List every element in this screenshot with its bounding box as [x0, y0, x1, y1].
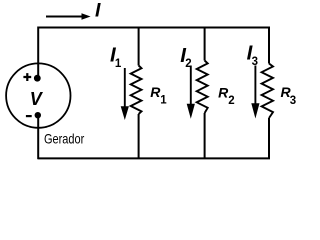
resistor R2 — [197, 61, 208, 114]
svg-text:Gerador: Gerador — [44, 132, 85, 147]
current arrow I1 — [124, 68, 126, 108]
resistor R3 — [262, 64, 273, 119]
svg-text:V: V — [30, 89, 44, 109]
current arrow I top — [46, 16, 84, 18]
minus terminal mark — [26, 115, 32, 117]
wire branch 3 top — [268, 27, 270, 64]
wire branch 1 bottom — [138, 114, 140, 159]
wire left top segment — [37, 27, 39, 79]
wire branch 2 top — [204, 27, 206, 61]
generator circle V — [6, 63, 70, 127]
wire bottom rail — [38, 157, 271, 159]
wire branch 3 bottom — [268, 118, 270, 159]
svg-text:3: 3 — [252, 56, 258, 68]
svg-text:2: 2 — [185, 58, 191, 70]
wire branch 2 bottom — [204, 113, 206, 159]
current arrow I2 — [190, 66, 192, 106]
svg-text:1: 1 — [160, 95, 167, 107]
current arrow I3 — [254, 66, 256, 106]
svg-text:I: I — [95, 0, 101, 22]
wire top rail — [38, 27, 271, 29]
node plus terminal dot — [34, 75, 41, 82]
svg-text:3: 3 — [290, 95, 296, 107]
node minus terminal dot — [35, 112, 41, 118]
plus terminal mark — [23, 73, 31, 81]
svg-text:1: 1 — [115, 58, 122, 70]
wire branch 1 top — [138, 27, 140, 66]
svg-text:2: 2 — [228, 95, 234, 107]
wire left bottom segment — [37, 115, 39, 159]
resistor R1 — [131, 66, 142, 115]
